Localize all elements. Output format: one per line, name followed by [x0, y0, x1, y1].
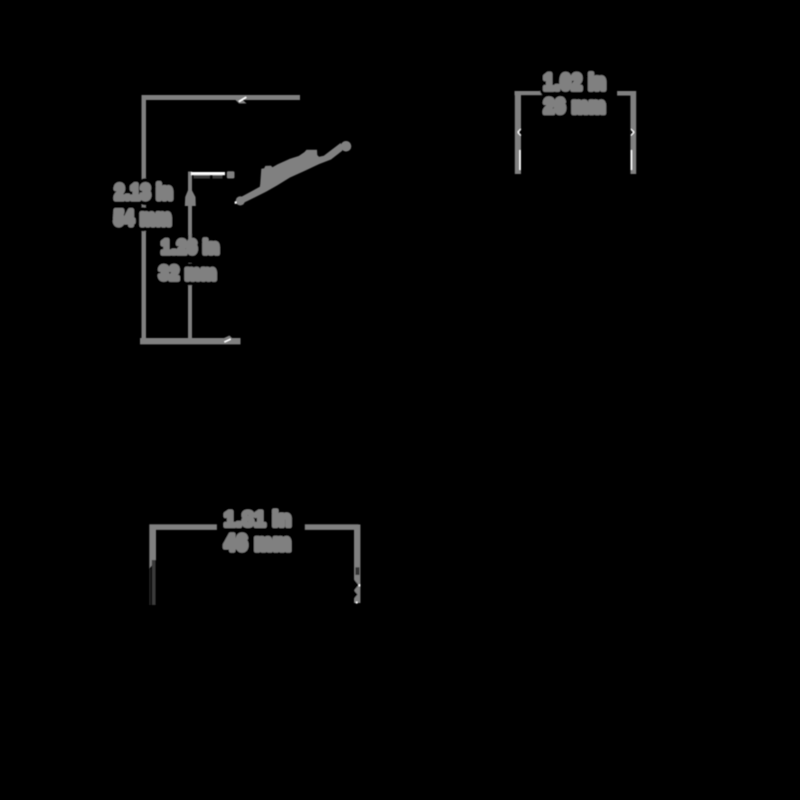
svg-text:1.02 in: 1.02 in	[544, 71, 607, 95]
svg-text:32 mm: 32 mm	[159, 261, 217, 283]
svg-text:1.26 in: 1.26 in	[161, 236, 219, 257]
svg-text:26 mm: 26 mm	[544, 95, 606, 118]
svg-text:1.81 in: 1.81 in	[224, 507, 292, 531]
svg-text:46 mm: 46 mm	[224, 529, 291, 556]
svg-text:54 mm: 54 mm	[114, 207, 172, 230]
svg-text:2.13 in: 2.13 in	[115, 181, 174, 204]
